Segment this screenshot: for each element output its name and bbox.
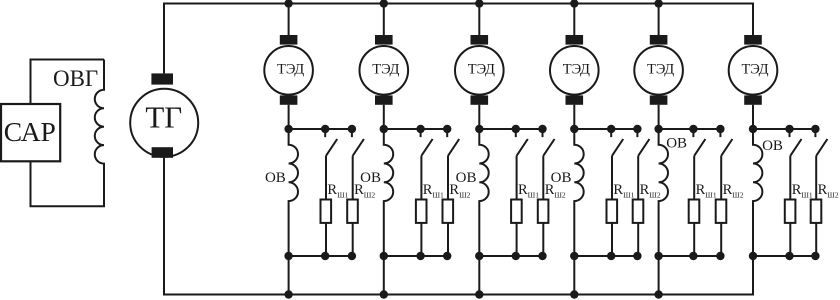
node: lower rail 4 / R_Ш2 bbox=[633, 252, 641, 260]
field winding ОВ of ТЭД5 bbox=[659, 129, 668, 256]
wire: upper shunt rail 2 bbox=[384, 128, 447, 130]
switch S5.2 (stub and blade) bbox=[720, 129, 732, 156]
motor ТЭД6: bottom brush bbox=[744, 95, 762, 104]
resistor RШ2 (2) bbox=[443, 200, 454, 223]
node: lower rail 1 / R_Ш2 bbox=[348, 252, 356, 260]
wire: lower rail 3 to bottom bus bbox=[478, 256, 480, 295]
resistor RШ2 (6) bbox=[811, 200, 822, 223]
wire: bottom bus (from ТГ down, across, up to ТЭД6 shunt rail) bbox=[164, 158, 753, 295]
svg-text:ТЭД: ТЭД bbox=[468, 62, 495, 78]
motor ТЭД6: top brush bbox=[744, 35, 762, 45]
node: bottom bus junction 1 bbox=[284, 290, 292, 298]
switch S5.1 (stub and blade) bbox=[693, 129, 705, 156]
wire: switch S2.2 to resistor bbox=[447, 156, 449, 200]
node: lower rail 2 / ОВ bbox=[380, 252, 388, 260]
tachogenerator ТГ: armature circle bbox=[130, 89, 198, 157]
field winding ОВ of ТЭД2 bbox=[384, 129, 393, 256]
resistor RШ1 (3) bbox=[511, 200, 522, 223]
wire: resistor RШ2 (4) to lower rail bbox=[637, 223, 639, 256]
node: lower rail 2 / R_Ш1 bbox=[416, 252, 424, 260]
resistor RШ1 (5) bbox=[689, 200, 700, 223]
resistor RШ2 (4) bbox=[633, 200, 644, 223]
node: lower rail 6 / ОВ bbox=[749, 252, 757, 260]
switch S1.1 (stub and blade) bbox=[325, 129, 337, 156]
wire: switch S5.2 to resistor bbox=[720, 156, 722, 200]
node: rail 6 / switch 2 bbox=[811, 125, 819, 133]
svg-text:RШ1: RШ1 bbox=[792, 182, 813, 200]
node: rail 2 / switch 2 bbox=[443, 125, 451, 133]
node: rail 5 / switch 1 bbox=[689, 125, 697, 133]
node: lower rail 6 / R_Ш2 bbox=[811, 252, 819, 260]
resistor RШ1 (1) bbox=[321, 200, 332, 223]
node: lower rail 1 / ОВ bbox=[284, 252, 292, 260]
node: top bus junction 5 bbox=[654, 0, 662, 8]
wire: lower rail 5 to bottom bus bbox=[658, 256, 660, 295]
wire: top bus drop to ТЭД2 bbox=[383, 4, 385, 36]
resistor RШ2 (5) bbox=[716, 200, 727, 223]
svg-text:ОВ: ОВ bbox=[666, 135, 687, 151]
wire: top bus drop to ТЭД4 bbox=[573, 4, 575, 36]
wire: resistor RШ2 (2) to lower rail bbox=[447, 223, 449, 256]
svg-text:ОВ: ОВ bbox=[551, 170, 572, 186]
node: lower rail 5 / ОВ bbox=[654, 252, 662, 260]
motor ТЭД5: top brush bbox=[650, 35, 668, 45]
wire: resistor RШ2 (3) to lower rail bbox=[542, 223, 544, 256]
wire: lower rail 4 to bottom bus bbox=[573, 256, 575, 295]
box САР (automatic regulation system) bbox=[1, 104, 60, 161]
motor ТЭД5: bottom brush bbox=[650, 95, 668, 104]
node: lower rail 3 / R_Ш2 bbox=[538, 252, 546, 260]
box ОВГ (generator field winding unit) with winding on right edge bbox=[31, 60, 105, 207]
wire: switch S1.2 to resistor bbox=[352, 156, 354, 200]
resistor RШ2 (1) bbox=[347, 200, 358, 223]
node: rail 1 / ОВ bbox=[284, 125, 292, 133]
wire: lower shunt rail 4 bbox=[574, 255, 637, 257]
svg-text:RШ1: RШ1 bbox=[613, 182, 634, 200]
svg-text:ОВ: ОВ bbox=[762, 138, 783, 154]
wire: lower rail 2 to bottom bus bbox=[383, 256, 385, 295]
wire: lower shunt rail 6 bbox=[753, 255, 815, 257]
node: rail 3 / ОВ bbox=[475, 125, 483, 133]
tachogenerator ТГ: bottom brush bbox=[152, 147, 173, 158]
svg-text:RШ1: RШ1 bbox=[696, 182, 717, 200]
switch S2.2 (stub and blade) bbox=[447, 129, 459, 156]
switch S4.2 (stub and blade) bbox=[637, 129, 649, 156]
motor ТЭД4: top brush bbox=[566, 35, 584, 45]
node: rail 3 / switch 2 bbox=[538, 125, 546, 133]
svg-text:RШ1: RШ1 bbox=[518, 182, 539, 200]
wire: resistor RШ2 (1) to lower rail bbox=[352, 223, 354, 256]
wire: ТЭД5 to upper shunt rail bbox=[658, 105, 660, 129]
node: bottom bus junction 3 bbox=[475, 290, 483, 298]
node: rail 4 / switch 1 bbox=[607, 125, 615, 133]
wire: lower shunt rail 1 bbox=[289, 255, 352, 257]
resistor RШ1 (2) bbox=[416, 200, 427, 223]
node: rail 1 / switch 2 bbox=[348, 125, 356, 133]
field winding ОВ of ТЭД1 bbox=[289, 129, 298, 256]
wire: resistor RШ1 (6) to lower rail bbox=[789, 223, 791, 256]
motor ТЭД5: armature circle bbox=[634, 46, 683, 95]
node: lower rail 1 / R_Ш1 bbox=[321, 252, 329, 260]
wire: top bus drop to ТЭД1 bbox=[288, 4, 290, 36]
motor ТЭД3: top brush bbox=[471, 35, 489, 45]
motor ТЭД1: armature circle bbox=[264, 46, 313, 95]
motor ТЭД3: armature circle bbox=[455, 46, 504, 95]
switch S3.1 (stub and blade) bbox=[516, 129, 528, 156]
wire: switch S6.2 to resistor bbox=[815, 156, 817, 200]
wire: upper shunt rail 3 bbox=[479, 128, 542, 130]
node: rail 2 / switch 1 bbox=[416, 125, 424, 133]
motor ТЭД3: bottom brush bbox=[471, 95, 489, 104]
motor ТЭД2: armature circle bbox=[360, 46, 409, 95]
svg-text:ТЭД: ТЭД bbox=[563, 62, 590, 78]
wire: switch S1.1 to resistor bbox=[325, 156, 327, 200]
node: rail 6 / ОВ bbox=[749, 125, 757, 133]
node: top bus junction 4 bbox=[570, 0, 578, 8]
svg-text:ТЭД: ТЭД bbox=[741, 62, 768, 78]
node: lower rail 4 / ОВ bbox=[570, 252, 578, 260]
wire: ТЭД2 to upper shunt rail bbox=[383, 105, 385, 129]
wire: resistor RШ1 (5) to lower rail bbox=[693, 223, 695, 256]
node: lower rail 5 / R_Ш1 bbox=[689, 252, 697, 260]
wire: lower shunt rail 5 bbox=[659, 255, 721, 257]
switch S4.1 (stub and blade) bbox=[611, 129, 623, 156]
node: top bus junction 2 bbox=[380, 0, 388, 8]
node: lower rail 3 / ОВ bbox=[475, 252, 483, 260]
wire: lower shunt rail 2 bbox=[384, 255, 447, 257]
node: rail 2 / ОВ bbox=[380, 125, 388, 133]
svg-text:ТЭД: ТЭД bbox=[372, 62, 399, 78]
svg-text:RШ2: RШ2 bbox=[818, 182, 839, 200]
wire: top bus (from ТГ up, across, down to ТЭД6) bbox=[164, 4, 753, 74]
motor ТЭД1: top brush bbox=[280, 35, 298, 45]
wire: ТЭД3 to upper shunt rail bbox=[478, 105, 480, 129]
motor ТЭД1: bottom brush bbox=[280, 95, 298, 104]
svg-text:RШ2: RШ2 bbox=[723, 182, 744, 200]
node: rail 5 / ОВ bbox=[654, 125, 662, 133]
svg-text:ОВГ: ОВГ bbox=[53, 66, 98, 91]
wire: resistor RШ1 (3) to lower rail bbox=[516, 223, 518, 256]
switch S2.1 (stub and blade) bbox=[421, 129, 433, 156]
switch S3.2 (stub and blade) bbox=[543, 129, 555, 156]
node: bottom bus junction 2 bbox=[380, 290, 388, 298]
wire: resistor RШ1 (1) to lower rail bbox=[325, 223, 327, 256]
wire: ТЭД6 to upper shunt rail bbox=[752, 105, 754, 129]
node: lower rail 6 / R_Ш1 bbox=[785, 252, 793, 260]
node: rail 4 / ОВ bbox=[570, 125, 578, 133]
wire: upper shunt rail 5 bbox=[659, 128, 721, 130]
wire: resistor RШ1 (4) to lower rail bbox=[611, 223, 613, 256]
wire: resistor RШ2 (6) to lower rail bbox=[815, 223, 817, 256]
wire: lower shunt rail 3 bbox=[479, 255, 542, 257]
svg-text:ОВ: ОВ bbox=[456, 170, 477, 186]
wire: switch S4.2 to resistor bbox=[637, 156, 639, 200]
motor ТЭД2: bottom brush bbox=[375, 95, 393, 104]
wire: switch S6.1 to resistor bbox=[789, 156, 791, 200]
wire: ТЭД1 to upper shunt rail bbox=[288, 105, 290, 129]
node: lower rail 2 / R_Ш2 bbox=[443, 252, 451, 260]
resistor RШ1 (4) bbox=[607, 200, 618, 223]
wire: upper shunt rail 4 bbox=[574, 128, 637, 130]
motor ТЭД4: bottom brush bbox=[566, 95, 584, 104]
node: lower rail 3 / R_Ш1 bbox=[512, 252, 520, 260]
node: rail 3 / switch 1 bbox=[512, 125, 520, 133]
wire: switch S3.2 to resistor bbox=[542, 156, 544, 200]
field winding ОВ of ТЭД6 bbox=[753, 129, 762, 256]
node: rail 4 / switch 2 bbox=[633, 125, 641, 133]
wire: switch S4.1 to resistor bbox=[611, 156, 613, 200]
switch S6.2 (stub and blade) bbox=[815, 129, 827, 156]
node: bottom bus junction 4 bbox=[570, 290, 578, 298]
wire: top bus drop to ТЭД5 bbox=[658, 4, 660, 36]
wire: top bus drop to ТЭД3 bbox=[478, 4, 480, 36]
resistor RШ2 (3) bbox=[538, 200, 549, 223]
node: rail 5 / switch 2 bbox=[716, 125, 724, 133]
svg-text:RШ1: RШ1 bbox=[327, 182, 348, 200]
resistor RШ1 (6) bbox=[785, 200, 796, 223]
wire: switch S2.1 to resistor bbox=[420, 156, 422, 200]
wire: upper shunt rail 6 bbox=[753, 128, 815, 130]
node: top bus junction 1 bbox=[284, 0, 292, 8]
wire: ТЭД4 to upper shunt rail bbox=[573, 105, 575, 129]
field winding ОВ of ТЭД3 bbox=[479, 129, 488, 256]
node: lower rail 5 / R_Ш2 bbox=[716, 252, 724, 260]
wire: switch S5.1 to resistor bbox=[693, 156, 695, 200]
svg-text:ОВ: ОВ bbox=[360, 170, 381, 186]
svg-text:ТЭД: ТЭД bbox=[277, 62, 304, 78]
svg-text:ТГ: ТГ bbox=[145, 99, 182, 134]
motor ТЭД6: armature circle bbox=[729, 46, 778, 95]
field winding ОВ of ТЭД4 bbox=[574, 129, 583, 256]
svg-text:ТЭД: ТЭД bbox=[647, 62, 674, 78]
wire: upper shunt rail 1 bbox=[289, 128, 352, 130]
wire: switch S3.1 to resistor bbox=[516, 156, 518, 200]
tachogenerator ТГ: top brush bbox=[151, 73, 173, 84]
wire: resistor RШ1 (2) to lower rail bbox=[420, 223, 422, 256]
switch S6.1 (stub and blade) bbox=[790, 129, 802, 156]
svg-text:RШ1: RШ1 bbox=[423, 182, 444, 200]
node: rail 6 / switch 1 bbox=[785, 125, 793, 133]
node: top bus junction 3 bbox=[475, 0, 483, 8]
node: lower rail 4 / R_Ш1 bbox=[607, 252, 615, 260]
wire: lower rail 1 to bottom bus bbox=[288, 256, 290, 295]
motor ТЭД2: top brush bbox=[375, 35, 393, 45]
wire: resistor RШ2 (5) to lower rail bbox=[720, 223, 722, 256]
node: rail 1 / switch 1 bbox=[321, 125, 329, 133]
svg-text:ОВ: ОВ bbox=[265, 170, 286, 186]
svg-text:САР: САР bbox=[4, 116, 56, 147]
motor ТЭД4: armature circle bbox=[550, 46, 599, 95]
switch S1.2 (stub and blade) bbox=[352, 129, 364, 156]
svg-text:RШ2: RШ2 bbox=[640, 182, 661, 200]
node: bottom bus junction 5 bbox=[654, 290, 662, 298]
